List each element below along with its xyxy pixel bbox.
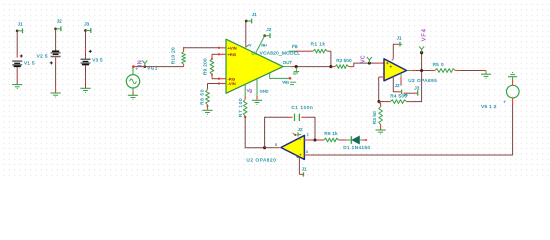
svg-text:R5 0: R5 0: [433, 62, 444, 67]
ground (output termination): [481, 71, 491, 79]
svg-text:J2: J2: [266, 27, 271, 32]
svg-text:J2: J2: [395, 83, 400, 88]
ground (V1): [12, 85, 22, 90]
wire U2 -IN to node: [311, 139, 314, 141]
svg-text:2: 2: [307, 133, 309, 137]
wire VG1 to ground: [132, 88, 134, 95]
svg-text:-VIN: -VIN: [228, 81, 236, 86]
svg-text:VC: VC: [361, 55, 367, 63]
wire R1 to OUT node: [330, 51, 332, 66]
wire R5 to termination: [460, 70, 486, 72]
source VG1: [126, 65, 139, 88]
node VOUT junction: [420, 69, 423, 72]
wire R9 to +RG: [212, 53, 226, 55]
diode D1 1N4150: [343, 136, 370, 150]
wire R2 to U3 +IN: [354, 63, 384, 67]
node U2 output junction: [263, 146, 266, 149]
ground (R3): [376, 130, 386, 135]
wire -VIN to R8: [208, 82, 227, 88]
svg-text:R10 20: R10 20: [171, 47, 176, 64]
svg-text:+: +: [503, 100, 506, 105]
resistor R1 1k: [306, 42, 331, 53]
node VC flag: [367, 57, 372, 65]
pin PD stub of U3: [400, 73, 402, 85]
svg-text:R2 500: R2 500: [336, 58, 352, 63]
connector J1 (U1 +V supply): [245, 12, 257, 23]
node R6/C1 junction: [313, 138, 316, 141]
wire to VOUT flag: [421, 54, 423, 70]
connector J2 (left): [54, 19, 62, 32]
pin OUT of U3: [407, 70, 421, 72]
svg-text:Vg: Vg: [247, 88, 253, 93]
resistor R8 50: [200, 88, 210, 110]
pin 2 (U2 -IN): [304, 133, 310, 140]
resistor R6 1k: [317, 131, 342, 142]
resistor R5 0: [423, 62, 460, 72]
node VOUT label: [421, 28, 427, 41]
svg-text:U2 OPA820: U2 OPA820: [246, 158, 276, 163]
svg-text:J2: J2: [57, 19, 62, 24]
wire V3 to ground: [85, 65, 87, 88]
svg-text:V1 5: V1 5: [24, 61, 35, 66]
resistor R4 500: [379, 93, 410, 103]
wire R9 to -RG: [212, 78, 226, 80]
pin OUT: [283, 60, 295, 67]
node IN flag: [142, 60, 158, 70]
wire VG1 to R10: [135, 66, 184, 68]
wire junction up to C1: [265, 117, 287, 147]
svg-text:J3: J3: [414, 85, 419, 90]
svg-text:6: 6: [275, 143, 277, 147]
wire C1 to R6 node: [307, 117, 315, 139]
svg-text:J1: J1: [302, 167, 307, 172]
node IN label: [137, 60, 143, 67]
ground (V2): [51, 93, 61, 98]
svg-text:U3 OPA695: U3 OPA695: [408, 78, 437, 83]
svg-text:R9 200: R9 200: [202, 58, 207, 75]
wire U2 output to C1: [245, 117, 263, 148]
wire V5 to U2 +IN: [311, 105, 513, 156]
svg-text:+: +: [299, 153, 301, 157]
connector J1 (U3 +V supply): [392, 36, 402, 61]
wire FB to R1: [301, 50, 306, 52]
svg-text:C1 100n: C1 100n: [291, 105, 313, 110]
wire J1 to U1 +V pin: [246, 22, 252, 48]
svg-text:V2 5: V2 5: [37, 54, 48, 59]
pin 6 (U2 OUT): [266, 143, 281, 148]
connector J2 (U2 +V supply): [293, 127, 303, 136]
wire V2 to ground: [55, 62, 57, 93]
svg-text:OUT: OUT: [293, 73, 298, 75]
svg-text:R4 500: R4 500: [390, 93, 407, 98]
svg-text:+VIN: +VIN: [228, 45, 237, 50]
wire R4 to U3 output: [410, 72, 422, 102]
pin GND of U1: [257, 79, 269, 99]
wire R6 to D1: [342, 139, 344, 141]
connector J3 (U3 PD): [404, 85, 420, 97]
node OUT junction: [295, 65, 298, 68]
node VOUT flag: [419, 46, 424, 54]
battery V1 5: [12, 55, 35, 67]
capacitor C1 100n: [287, 105, 313, 121]
wire OUT node to R2: [298, 66, 331, 68]
connector J3 (left): [84, 21, 91, 33]
source V5 1 2: [481, 80, 519, 111]
node VC label: [361, 55, 367, 63]
wire U3 -IN feedback: [379, 77, 384, 102]
pin VM1: [270, 73, 297, 84]
svg-text:J2: J2: [298, 127, 303, 132]
pin Vg and resistor R7 100: [238, 85, 253, 118]
svg-text:GND: GND: [260, 88, 269, 93]
svg-text:VM1: VM1: [282, 81, 289, 85]
svg-text:OUT: OUT: [283, 60, 293, 65]
connector J1 (U2 -V supply): [295, 155, 307, 177]
svg-text:R3 50: R3 50: [372, 111, 377, 124]
wire J1 to V1: [16, 32, 18, 58]
ground (U1 GND pin): [252, 100, 262, 105]
svg-text:VF4: VF4: [421, 28, 427, 41]
svg-text:FB: FB: [292, 44, 298, 49]
svg-text:R6 1k: R6 1k: [324, 131, 338, 136]
op-amp U3 OPA695: [384, 59, 437, 83]
op-amp U2 OPA820: [246, 135, 304, 162]
svg-text:V5 1 2: V5 1 2: [481, 104, 497, 110]
resistor R9 200: [202, 54, 213, 78]
svg-text:R1 1k: R1 1k: [311, 42, 326, 47]
svg-text:R8 50: R8 50: [200, 89, 205, 105]
node R1/R2 junction: [329, 65, 332, 68]
connector J1 (left): [16, 21, 23, 33]
ground (VG1): [128, 95, 138, 100]
connector J2 (U1 VB+ supply): [263, 27, 271, 38]
wire V1 to ground: [16, 67, 18, 84]
pin FB: [289, 44, 301, 51]
wire J2 to U1 VB+ pin: [257, 36, 268, 52]
resistor R2 500: [332, 58, 354, 69]
svg-text:J3: J3: [84, 21, 89, 26]
battery V2 5: [37, 51, 61, 64]
node R3/R4 junction: [377, 100, 380, 103]
svg-text:R7 100: R7 100: [238, 98, 243, 117]
svg-text:J1: J1: [18, 21, 23, 26]
resistor R3 50: [372, 102, 382, 130]
svg-text:+RG: +RG: [228, 52, 236, 57]
svg-text:VB+: VB+: [261, 43, 267, 47]
voltage pin flag (OUT): [293, 67, 299, 75]
ground (V3): [80, 88, 90, 93]
op-amp U1 VCA820_MODEL: [226, 39, 300, 93]
svg-text:D1 1N4150: D1 1N4150: [343, 145, 370, 150]
svg-text:3: 3: [306, 150, 308, 154]
pin 3 (U2 +IN): [304, 150, 310, 155]
svg-text:J1: J1: [397, 36, 402, 41]
battery V3 5: [81, 50, 103, 65]
resistor R10 20: [171, 47, 186, 67]
wire R10 to +VIN: [184, 47, 226, 49]
svg-text:V3 5: V3 5: [92, 58, 103, 63]
wire J2 to V2: [55, 30, 57, 51]
ground (V5 top, inverted): [508, 72, 517, 80]
ground (R8): [202, 110, 212, 115]
wire J3 to V3: [85, 31, 87, 58]
connector J2 (U3 -V supply): [393, 76, 401, 94]
svg-text:J1: J1: [252, 12, 257, 17]
